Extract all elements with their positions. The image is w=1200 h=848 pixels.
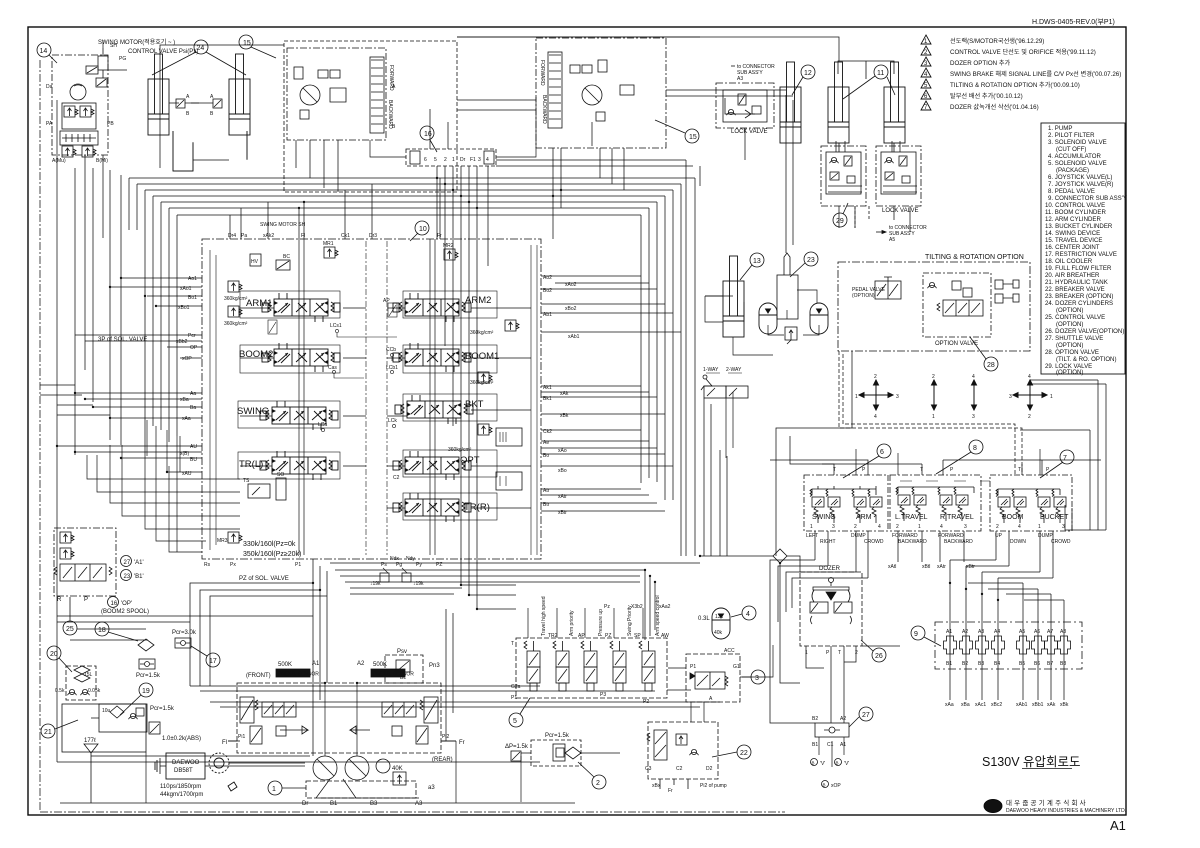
svg-text:Ck1: Ck1 xyxy=(341,233,350,239)
svg-text:LCa: LCa xyxy=(318,422,327,428)
svg-text:P1: P1 xyxy=(690,664,696,670)
svg-text:H.DWS-0405-REV.0(부P1): H.DWS-0405-REV.0(부P1) xyxy=(1032,18,1115,26)
svg-text:CONTROL VALVE Psi(Px): CONTROL VALVE Psi(Px) xyxy=(128,49,198,55)
svg-text:Psv: Psv xyxy=(397,649,407,655)
svg-text:A3: A3 xyxy=(737,76,743,82)
svg-text:SO: SO xyxy=(277,472,284,478)
svg-text:18: 18 xyxy=(98,627,106,634)
svg-text:Fr: Fr xyxy=(459,740,465,746)
regulators right (mirror) xyxy=(424,697,438,723)
svg-text:16: 16 xyxy=(424,131,432,138)
svg-text:Rs: Rs xyxy=(204,562,211,568)
svg-text:Pi2 of pump: Pi2 of pump xyxy=(700,783,727,789)
svg-text:4: 4 xyxy=(1028,374,1031,380)
svg-text:P: P xyxy=(950,467,954,473)
svg-text:A1: A1 xyxy=(840,742,846,748)
svg-text:11. BOOM CYLINDER: 11. BOOM CYLINDER xyxy=(1045,209,1106,216)
relief 360 left1 xyxy=(228,281,242,292)
svg-text:Dr: Dr xyxy=(460,157,466,163)
svg-text:40K: 40K xyxy=(392,766,403,772)
pump circles xyxy=(313,756,337,780)
svg-text:2: 2 xyxy=(874,374,877,380)
svg-text:xBx: xBx xyxy=(652,783,661,789)
svg-text:A(Mu): A(Mu) xyxy=(52,158,66,164)
company logo xyxy=(984,798,1126,814)
svg-text:(OPTION): (OPTION) xyxy=(1056,342,1083,349)
svg-text:3P of SOL. VALVE: 3P of SOL. VALVE xyxy=(98,337,147,343)
svg-text:C1: C1 xyxy=(827,742,834,748)
svg-text:xBc2: xBc2 xyxy=(991,702,1002,708)
svg-text:4: 4 xyxy=(878,524,881,530)
svg-text:(OPTION): (OPTION) xyxy=(1056,369,1083,376)
svg-text:Cas: Cas xyxy=(328,365,337,371)
joystick valve right 7 xyxy=(990,450,1074,545)
svg-text:OP: OP xyxy=(190,345,198,351)
svg-text:19. FULL FLOW FILTER: 19. FULL FLOW FILTER xyxy=(1045,265,1112,272)
svg-text:12: 12 xyxy=(804,70,812,77)
svg-text:xBa: xBa xyxy=(180,397,189,403)
trunk below CV xyxy=(40,556,800,812)
svg-text:6: 6 xyxy=(424,157,427,163)
svg-text:B3: B3 xyxy=(978,661,984,667)
svg-text:xOP: xOP xyxy=(182,356,192,362)
svg-text:TILTING & ROTATION OPTION: TILTING & ROTATION OPTION xyxy=(925,254,1024,261)
svg-text:Ndy: Ndy xyxy=(406,556,415,562)
svg-text:LOCK VALVE: LOCK VALVE xyxy=(731,129,767,135)
svg-text:Pcr=3.0k: Pcr=3.0k xyxy=(172,630,197,636)
svg-text:SWING: SWING xyxy=(812,514,836,521)
svg-text:B: B xyxy=(392,124,396,130)
svg-text:B3: B3 xyxy=(370,801,378,807)
svg-text:12. ARM CYLINDER: 12. ARM CYLINDER xyxy=(1045,216,1101,223)
svg-text:2: 2 xyxy=(996,524,999,530)
svg-text:Da: Da xyxy=(46,84,53,90)
svg-text:C2: C2 xyxy=(676,766,683,772)
CV port labels right xyxy=(543,275,580,516)
svg-text:5. SOLENOID VALVE: 5. SOLENOID VALVE xyxy=(1048,160,1107,167)
svg-text:10: 10 xyxy=(419,226,427,233)
svg-text:A: A xyxy=(709,696,713,702)
svg-text:9: 9 xyxy=(914,631,918,638)
svg-text:F1: F1 xyxy=(470,157,476,163)
parts list box xyxy=(1041,123,1127,376)
svg-text:0.5k: 0.5k xyxy=(55,688,65,694)
svg-text:Dr3: Dr3 xyxy=(369,233,377,239)
svg-text:22: 22 xyxy=(740,750,748,757)
svg-text:2: 2 xyxy=(596,780,600,787)
svg-text:선도랙(S/MOTOR국선생('96.12.29): 선도랙(S/MOTOR국선생('96.12.29) xyxy=(950,37,1044,45)
joystick valve left 6 xyxy=(804,444,891,545)
svg-text:CONTROL VALVE 단선도 및 ORIFICE 적용: CONTROL VALVE 단선도 및 ORIFICE 적용('99.11.12… xyxy=(950,48,1096,56)
pilot filter 2 xyxy=(505,733,606,789)
svg-text:B: B xyxy=(186,111,190,117)
svg-text:PZ: PZ xyxy=(605,633,611,639)
svg-text:15: 15 xyxy=(689,134,697,141)
svg-text:xBtl: xBtl xyxy=(922,564,930,570)
svg-text:DOZER OPTION 추가: DOZER OPTION 추가 xyxy=(950,59,1011,67)
svg-text:Fl: Fl xyxy=(301,233,305,239)
svg-text:DAEWOO HEAVY INDUSTRIES & MACH: DAEWOO HEAVY INDUSTRIES & MACHINERY LTD. xyxy=(1006,808,1126,814)
lock valves 29 pair xyxy=(821,143,927,243)
relief 360 left2 xyxy=(228,306,242,317)
svg-text:P: P xyxy=(1046,467,1050,473)
travel device left 15 xyxy=(239,35,457,192)
svg-text:9. CONNECTOR SUB ASS'Y: 9. CONNECTOR SUB ASS'Y xyxy=(1048,195,1127,202)
svg-text:6. JOYSTICK VALVE(L): 6. JOYSTICK VALVE(L) xyxy=(1048,174,1112,181)
svg-text:500K: 500K xyxy=(278,662,292,668)
spool OPT xyxy=(393,451,480,480)
svg-text:Pcr=1.5k: Pcr=1.5k xyxy=(545,733,570,739)
svg-text:xAb1: xAb1 xyxy=(568,334,580,340)
svg-text:Pcr=1.5k: Pcr=1.5k xyxy=(150,706,175,712)
svg-text:0.05k: 0.05k xyxy=(88,688,101,694)
svg-text:23: 23 xyxy=(807,257,815,264)
svg-text:xAk2: xAk2 xyxy=(263,233,274,239)
svg-text:27: 27 xyxy=(862,712,870,719)
oil tank / breather 23 xyxy=(777,252,818,319)
svg-text:360kg/cm²: 360kg/cm² xyxy=(470,330,494,336)
svg-text:360kg/cm²: 360kg/cm² xyxy=(224,321,248,327)
spool BKT xyxy=(395,395,484,424)
svg-text:TS: TS xyxy=(243,478,250,484)
svg-text:Pa: Pa xyxy=(241,233,247,239)
svg-text:27. SHUTTLE VALVE: 27. SHUTTLE VALVE xyxy=(1045,335,1103,342)
spool BOOM1 xyxy=(393,343,499,372)
svg-text:DOZER 샰녹개선 삭선('01.04.16): DOZER 샰녹개선 삭선('01.04.16) xyxy=(950,103,1039,111)
svg-text:Aa: Aa xyxy=(190,391,196,397)
spool SWING xyxy=(237,401,338,430)
svg-text:10u: 10u xyxy=(102,708,111,714)
trunk right columns xyxy=(457,37,1106,723)
dozer control valve option 25 xyxy=(54,528,149,635)
accumulator 4 + cutoff solenoid 3 xyxy=(686,606,765,702)
svg-text:1. PUMP: 1. PUMP xyxy=(1048,125,1072,132)
regulators left xyxy=(240,697,254,723)
relief MR1 xyxy=(324,247,338,258)
svg-text:3. SOLENOID VALVE: 3. SOLENOID VALVE xyxy=(1048,139,1107,146)
svg-text:Dr: Dr xyxy=(302,801,308,807)
main pump assembly 1 xyxy=(222,649,465,807)
svg-text:11: 11 xyxy=(877,70,884,77)
svg-text:16: 16 xyxy=(111,601,118,607)
svg-text:LCs1: LCs1 xyxy=(330,323,342,329)
svg-text:1: 1 xyxy=(805,650,808,656)
CV section frames xyxy=(238,291,497,520)
svg-text:25. CONTROL VALVE: 25. CONTROL VALVE xyxy=(1045,314,1105,321)
svg-text:26. DOZER VALVE(OPTION): 26. DOZER VALVE(OPTION) xyxy=(1045,328,1124,335)
svg-text:C2: C2 xyxy=(393,475,400,481)
svg-text:Pressure up: Pressure up xyxy=(598,609,604,636)
svg-text:xAa: xAa xyxy=(945,702,954,708)
svg-text:xAo: xAo xyxy=(558,448,567,454)
svg-text:5: 5 xyxy=(513,718,517,725)
svg-text:23: 23 xyxy=(124,574,131,580)
svg-text:Pn3: Pn3 xyxy=(429,663,440,669)
HV component xyxy=(250,254,261,266)
svg-text:177ℓ: 177ℓ xyxy=(84,737,96,744)
lock valve top (dozer option) xyxy=(716,64,775,135)
boom cylinders 24 xyxy=(148,40,250,171)
BC component xyxy=(276,260,290,270)
svg-text:3: 3 xyxy=(1009,394,1012,400)
svg-text:xBb1: xBb1 xyxy=(1032,702,1044,708)
svg-text:B1: B1 xyxy=(330,801,338,807)
travel device right 15 xyxy=(536,38,699,148)
svg-text:A7: A7 xyxy=(1047,629,1053,635)
svg-text:B2: B2 xyxy=(812,716,818,722)
svg-text:P: P xyxy=(826,650,830,656)
svg-text:A1: A1 xyxy=(946,629,952,635)
svg-text:B1: B1 xyxy=(946,661,952,667)
svg-text:2: 2 xyxy=(932,374,935,380)
center joint connector 16 xyxy=(406,126,496,166)
svg-text:L.TRAVEL: L.TRAVEL xyxy=(895,514,928,521)
breaker valve 22 xyxy=(645,722,751,794)
svg-text:B: B xyxy=(812,761,815,766)
svg-text:13k: 13k xyxy=(715,614,724,620)
svg-text:'B1': 'B1' xyxy=(134,574,144,580)
svg-text:PA: PA xyxy=(46,121,53,127)
svg-text:2: 2 xyxy=(855,650,858,656)
svg-text:A1: A1 xyxy=(1110,818,1126,833)
svg-text:8: 8 xyxy=(973,445,977,452)
svg-text:SH: SH xyxy=(110,43,117,49)
MR3 + settings xyxy=(228,532,242,543)
svg-text:Arm speed control: Arm speed control xyxy=(655,595,661,636)
svg-text:6: 6 xyxy=(880,449,884,456)
svg-text:A2: A2 xyxy=(840,716,846,722)
svg-text:2: 2 xyxy=(444,157,447,163)
svg-text:B: B xyxy=(823,783,826,788)
svg-text:B7: B7 xyxy=(1047,661,1053,667)
svg-text:xBk: xBk xyxy=(1060,702,1069,708)
1-way 2-way pedal valve xyxy=(701,367,748,398)
svg-text:13: 13 xyxy=(753,258,761,265)
svg-text:7. JOYSTICK VALVE(R): 7. JOYSTICK VALVE(R) xyxy=(1048,181,1113,188)
svg-text:15L: 15L xyxy=(84,672,93,678)
svg-text:MR3: MR3 xyxy=(217,538,228,544)
svg-text:2: 2 xyxy=(854,524,857,530)
svg-text:21. HYDRAULIC TANK: 21. HYDRAULIC TANK xyxy=(1045,279,1108,286)
svg-text:A3: A3 xyxy=(415,801,423,807)
svg-text:21: 21 xyxy=(44,729,52,736)
svg-text:DAEWOO: DAEWOO xyxy=(172,760,200,766)
svg-text:T: T xyxy=(1018,467,1021,473)
svg-text:ARM: ARM xyxy=(856,514,872,521)
svg-text:BC: BC xyxy=(283,254,290,260)
svg-text:DB58T: DB58T xyxy=(174,768,193,774)
svg-text:23. BREAKER (OPTION): 23. BREAKER (OPTION) xyxy=(1045,293,1113,300)
svg-text:B4: B4 xyxy=(994,661,1000,667)
svg-text:xBtr: xBtr xyxy=(966,564,975,570)
svg-text:BACKWARD: BACKWARD xyxy=(898,539,927,545)
spool BOOM2 xyxy=(239,343,340,372)
svg-text:Pcr: Pcr xyxy=(188,333,196,339)
spool ARM2 xyxy=(393,293,491,322)
control valve 10 enclosure xyxy=(202,221,541,559)
svg-text:탈부선 배선 추가('00.10.12): 탈부선 배선 추가('00.10.12) xyxy=(950,92,1023,100)
svg-text:1.0±0.2k(ABS): 1.0±0.2k(ABS) xyxy=(162,736,201,742)
svg-text:B1: B1 xyxy=(812,742,818,748)
svg-text:28. OPTION VALVE: 28. OPTION VALVE xyxy=(1045,349,1099,356)
relief MR2 xyxy=(444,249,458,260)
svg-text:20. AIR BREATHER: 20. AIR BREATHER xyxy=(1045,272,1100,279)
svg-text:Pz: Pz xyxy=(604,604,610,610)
CV right small reliefs xyxy=(204,320,522,587)
svg-text:14: 14 xyxy=(40,48,48,55)
svg-text:CROWD: CROWD xyxy=(864,539,884,545)
svg-text:MR1: MR1 xyxy=(323,241,334,247)
svg-text:SWING: SWING xyxy=(237,406,269,417)
svg-text:S130V 유압회로도: S130V 유압회로도 xyxy=(982,755,1081,769)
wire trunk top bundle xyxy=(40,37,700,812)
svg-text:A: A xyxy=(392,84,396,90)
svg-text:(OPTION): (OPTION) xyxy=(1056,307,1083,314)
svg-text:xBb2: xBb2 xyxy=(176,339,188,345)
svg-text:LCk: LCk xyxy=(388,418,397,424)
travel pedal valve 8 xyxy=(888,440,990,570)
svg-text:BOOM: BOOM xyxy=(1002,514,1024,521)
svg-text:MR2: MR2 xyxy=(443,243,454,249)
dozer valve 26 xyxy=(800,566,886,662)
svg-text:xAtr: xAtr xyxy=(937,564,946,570)
svg-text:15. TRAVEL DEVICE: 15. TRAVEL DEVICE xyxy=(1045,237,1102,244)
svg-text:PG: PG xyxy=(119,56,126,62)
svg-text:TILTING & ROTATION OPTION 추가(': TILTING & ROTATION OPTION 추가('00.09.10) xyxy=(950,81,1080,89)
svg-text:DOZER: DOZER xyxy=(819,566,841,572)
svg-text:PB: PB xyxy=(107,121,114,127)
svg-text:360kg/cm²: 360kg/cm² xyxy=(224,296,248,302)
svg-text:16. CENTER JOINT: 16. CENTER JOINT xyxy=(1045,244,1100,251)
svg-text:BKT: BKT xyxy=(465,399,484,410)
engine DAEWOO DB58T xyxy=(155,753,305,798)
svg-text:LCb1: LCb1 xyxy=(386,365,398,371)
svg-text:ACC: ACC xyxy=(724,648,735,654)
svg-text:T: T xyxy=(920,467,923,473)
svg-text:xBo2: xBo2 xyxy=(565,306,577,312)
svg-text:1: 1 xyxy=(810,524,813,530)
svg-text:0.3L: 0.3L xyxy=(698,616,710,622)
svg-text:Travel high speed: Travel high speed xyxy=(541,596,547,636)
svg-text:P1: P1 xyxy=(511,695,517,701)
svg-text:7: 7 xyxy=(1063,455,1067,462)
tilting & rotation option 28 xyxy=(838,254,1030,371)
svg-text:xBo: xBo xyxy=(558,468,567,474)
svg-text:Ao1: Ao1 xyxy=(188,276,197,282)
svg-text:1: 1 xyxy=(932,414,935,420)
svg-text:B6: B6 xyxy=(1034,661,1040,667)
svg-text:xAa2: xAa2 xyxy=(659,604,671,610)
boom cylinders 11 xyxy=(828,61,905,143)
svg-text:xAb1: xAb1 xyxy=(1016,702,1028,708)
svg-text:xBa: xBa xyxy=(961,702,970,708)
svg-text:LOCK VALVE: LOCK VALVE xyxy=(882,208,918,214)
svg-text:1: 1 xyxy=(918,524,921,530)
svg-text:(TILT. & RO. OPTION): (TILT. & RO. OPTION) xyxy=(1056,356,1117,363)
svg-text:DOWN: DOWN xyxy=(1010,539,1026,545)
svg-text:ΔP=1.5k: ΔP=1.5k xyxy=(505,744,529,750)
svg-text:Pi1: Pi1 xyxy=(238,734,245,740)
svg-text:G2a: G2a xyxy=(511,684,521,690)
svg-text:BL: BL xyxy=(400,675,406,681)
svg-text:T: T xyxy=(838,650,841,656)
misc interconnect wires xyxy=(91,40,1040,803)
svg-text:3: 3 xyxy=(972,414,975,420)
svg-text:T: T xyxy=(833,467,836,473)
connector sub assy 9 xyxy=(911,622,1082,708)
svg-text:(PACKAGE): (PACKAGE) xyxy=(1056,167,1089,174)
svg-text:4: 4 xyxy=(746,611,750,618)
svg-text:R: R xyxy=(57,597,62,603)
accumulators pair xyxy=(759,303,828,344)
svg-text:BACKWARD: BACKWARD xyxy=(944,539,973,545)
svg-text:xAa: xAa xyxy=(182,416,191,422)
svg-text:LEFT: LEFT xyxy=(806,533,818,539)
full flow filter 19 xyxy=(99,683,201,742)
svg-text:B(Mi): B(Mi) xyxy=(96,158,108,164)
diamond junction xyxy=(773,549,787,563)
svg-text:28: 28 xyxy=(987,362,995,369)
svg-text:14. SWING DEVICE: 14. SWING DEVICE xyxy=(1045,230,1100,237)
svg-text:SWING BRAKE 해제 SIGNAL LINE를 C/: SWING BRAKE 해제 SIGNAL LINE를 C/V Px선 변경('… xyxy=(950,70,1121,78)
svg-text:D2: D2 xyxy=(706,766,713,772)
svg-text:24. DOZER CYLINDERS: 24. DOZER CYLINDERS xyxy=(1045,300,1113,307)
arm cylinder 12 xyxy=(780,62,815,143)
svg-text:B5: B5 xyxy=(1019,661,1025,667)
internal feed lines xyxy=(299,239,304,555)
svg-text:(OPTION): (OPTION) xyxy=(1056,321,1083,328)
svg-text:15: 15 xyxy=(243,40,251,47)
svg-text:B8: B8 xyxy=(1060,661,1066,667)
svg-text:4: 4 xyxy=(874,414,877,420)
svg-text:3: 3 xyxy=(1062,524,1065,530)
svg-text:'OP': 'OP' xyxy=(121,601,132,607)
svg-text:xAc1: xAc1 xyxy=(975,702,986,708)
svg-text:FORWARD: FORWARD xyxy=(539,60,545,86)
svg-text:A2: A2 xyxy=(962,629,968,635)
svg-text:A6: A6 xyxy=(1034,629,1040,635)
svg-text:(CUT OFF): (CUT OFF) xyxy=(1056,146,1086,153)
svg-text:4: 4 xyxy=(972,374,975,380)
svg-text:xAtl: xAtl xyxy=(888,564,896,570)
svg-text:P3: P3 xyxy=(600,692,606,698)
svg-text:40k: 40k xyxy=(714,630,723,636)
svg-text:AW: AW xyxy=(661,633,669,639)
svg-text:P: P xyxy=(84,597,88,603)
svg-text:A3: A3 xyxy=(978,629,984,635)
svg-text:4: 4 xyxy=(1018,524,1021,530)
svg-text:25: 25 xyxy=(66,626,74,633)
svg-text:1-WAY: 1-WAY xyxy=(703,367,719,373)
svg-text:'V': 'V' xyxy=(820,761,825,767)
svg-text:CROWD: CROWD xyxy=(1051,539,1071,545)
svg-text:2: 2 xyxy=(896,524,899,530)
spool TR(R) xyxy=(393,493,490,522)
svg-text:330k/160l(Pz=0k: 330k/160l(Pz=0k xyxy=(243,541,296,548)
svg-text:xAk: xAk xyxy=(1047,702,1056,708)
svg-text:a3: a3 xyxy=(428,785,435,791)
svg-text:2: 2 xyxy=(1028,414,1031,420)
svg-text:3: 3 xyxy=(832,524,835,530)
svg-text:TR2: TR2 xyxy=(548,633,558,639)
revision notes with warning triangles xyxy=(921,35,1121,111)
svg-text:360kg/cm²: 360kg/cm² xyxy=(470,380,494,386)
TS valve left bottom xyxy=(248,484,270,498)
svg-text:19: 19 xyxy=(142,688,150,695)
svg-text:2. PILOT FILTER: 2. PILOT FILTER xyxy=(1048,132,1095,139)
svg-text:350k/160l(Pz≥20k): 350k/160l(Pz≥20k) xyxy=(243,551,301,558)
direction crosses xyxy=(855,374,1053,420)
